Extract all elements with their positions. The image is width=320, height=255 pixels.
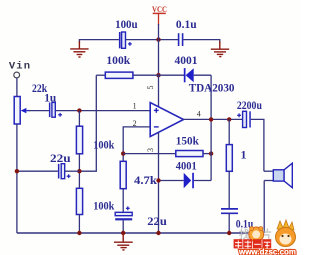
potentiometer RP 22k	[14, 97, 30, 125]
svg-text:100k: 100k	[93, 199, 114, 213]
wire top rail middle segment	[126, 39, 178, 41]
svg-text:4001: 4001	[175, 53, 198, 67]
svg-text:4: 4	[197, 109, 201, 118]
node junction rail/pin3	[156, 231, 160, 235]
svg-text:4.7k: 4.7k	[134, 173, 157, 187]
node junction bias/pin1	[77, 108, 81, 112]
wire pin5 supply into op-amp	[158, 75, 160, 106]
diode D 4001 bottom	[159, 173, 212, 189]
svg-text:1u: 1u	[44, 91, 56, 105]
wire 22u row from left column	[17, 170, 58, 172]
node junction output/zobel	[227, 117, 231, 121]
svg-text:4001: 4001	[176, 158, 197, 172]
wire	[228, 213, 230, 233]
wire	[65, 170, 79, 172]
capacitor C 1u	[49, 102, 62, 117]
node junction output/diode column	[209, 117, 213, 121]
wire pin2 row and drop	[123, 127, 150, 161]
wire VCC drop to rail	[158, 24, 160, 40]
svg-text:100u: 100u	[115, 17, 138, 31]
svg-text:3: 3	[146, 148, 155, 152]
wire	[133, 74, 159, 76]
node junction pin2/feedback	[121, 151, 125, 155]
resistor R 100k bias lower	[76, 188, 82, 214]
wire output to speaker column	[251, 119, 264, 171]
wire	[78, 215, 80, 234]
wire speaker down to rail	[263, 181, 265, 234]
op-amp U TDA2030	[150, 103, 183, 137]
svg-text:www.dzsc.com: www.dzsc.com	[238, 248, 296, 255]
svg-text:Vin: Vin	[9, 61, 31, 73]
node junction rail/bias	[77, 231, 81, 235]
svg-text:150k: 150k	[176, 133, 199, 147]
node junction rail/22u	[121, 231, 125, 235]
wire pot bottom down left column	[16, 124, 18, 233]
wire	[78, 154, 80, 189]
wire feedback row to 150k	[123, 153, 176, 155]
wire top rail right segment	[183, 40, 220, 43]
svg-text:2: 2	[133, 119, 137, 128]
capacitor C 100u	[119, 32, 132, 48]
wire Vin to pot	[16, 78, 18, 97]
speaker LS	[264, 163, 292, 188]
wire	[228, 171, 230, 209]
node junction 150k/output column	[209, 151, 213, 155]
svg-text:100k: 100k	[106, 53, 130, 67]
capacitor C 22u bottom	[115, 206, 132, 220]
wire 100k top row	[96, 74, 105, 76]
diode D 4001 top	[159, 68, 212, 82]
svg-text:22u: 22u	[50, 151, 71, 165]
resistor R 4.7k	[120, 161, 126, 188]
wire pin1 row from pot wiper to 1u	[29, 110, 49, 112]
node junction left column 22u	[15, 169, 19, 173]
resistor R 150k	[176, 151, 203, 157]
capacitor C 0.1u top	[179, 33, 183, 46]
watermark text 维库一下	[234, 239, 272, 248]
ground GND top-right	[211, 41, 229, 57]
wire VCC column to 100k/diode row	[158, 40, 160, 76]
resistor R 1 zobel	[226, 145, 232, 172]
svg-text:1: 1	[133, 102, 137, 111]
node junction bias mid	[77, 169, 81, 173]
wire	[228, 119, 230, 144]
node junction VCC-rail	[156, 37, 160, 41]
node junction rail/zobel	[227, 231, 231, 235]
svg-text:22u: 22u	[147, 214, 167, 228]
wire pin3 down from op-amp	[158, 132, 160, 233]
wire	[203, 153, 211, 155]
svg-text:100k: 100k	[93, 138, 114, 152]
wire output column down to bottom diode	[210, 119, 212, 180]
resistor R 100k bias upper	[76, 126, 82, 154]
svg-text:5: 5	[146, 86, 155, 90]
node junction pin3/diode	[156, 178, 160, 182]
ground GND top-left	[70, 41, 88, 57]
ground GND bottom	[114, 234, 133, 250]
wire bottom rail	[17, 232, 264, 234]
svg-text:2200u: 2200u	[237, 98, 262, 112]
wire	[122, 189, 124, 213]
wire from diode top down to output	[210, 75, 212, 119]
wire output row	[184, 118, 243, 120]
watermark mascot left	[239, 227, 272, 242]
svg-text:0.1u: 0.1u	[176, 17, 197, 31]
svg-text:TDA2030: TDA2030	[189, 81, 235, 95]
power VCC symbol	[152, 4, 167, 25]
resistor R 100k top	[105, 72, 133, 78]
capacitor C 22u left	[58, 164, 71, 179]
capacitor C 0.1u bottom	[221, 209, 238, 213]
wire	[122, 220, 124, 233]
watermark url www.dzsc.com	[238, 248, 296, 255]
svg-text:1: 1	[241, 148, 247, 162]
node junction at supply row	[156, 73, 160, 77]
wire drop from 100k-top left end down and to bias node	[79, 75, 96, 171]
wire	[78, 111, 80, 127]
wire top rail left segment	[79, 40, 119, 43]
wire pin1 row to op-amp	[56, 110, 151, 112]
capacitor C 2200u	[237, 111, 251, 127]
watermark mascot right	[276, 220, 296, 247]
